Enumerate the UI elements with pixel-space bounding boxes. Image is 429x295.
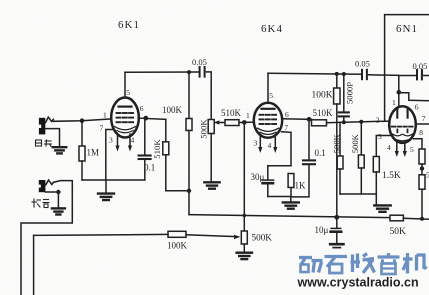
wire B- rail xyxy=(189,215,390,218)
node rail crossing xyxy=(243,214,247,218)
tube V3 plate strokes xyxy=(397,109,407,118)
node right chain xyxy=(420,166,424,170)
filament arrow V2 b xyxy=(274,137,276,148)
char kuang xyxy=(299,256,312,259)
jack J1 body xyxy=(37,118,45,135)
node rail right xyxy=(420,217,424,221)
filament arrow V1 a xyxy=(117,134,119,146)
tube V1 grid dashes xyxy=(117,113,134,122)
wire plate riser V3 xyxy=(398,76,400,107)
label jack1 xyxy=(36,140,52,147)
resistor 510K to V2 grid xyxy=(225,120,239,126)
pin 7 label V2 xyxy=(284,123,288,132)
wire cathode rail xyxy=(82,179,145,181)
capacitor 0.05 #3 xyxy=(399,75,416,77)
pin 2 label V3 xyxy=(376,115,380,124)
node pin6 junction xyxy=(143,116,148,121)
resistor right edge b xyxy=(421,169,423,175)
resistor 1.5K xyxy=(373,157,379,173)
ground cathode V2 xyxy=(283,202,299,208)
capacitor 10u electrolytic xyxy=(336,217,338,227)
wire cap3 to edge xyxy=(424,75,429,77)
node pin6 V2 junction xyxy=(307,117,312,122)
wire V2 plate riser xyxy=(267,73,269,103)
jack J2 plug xyxy=(46,180,54,185)
wire outer L xyxy=(21,186,72,295)
wire plate rail V1 xyxy=(125,71,198,73)
capacitor 0.1 #2 xyxy=(308,119,310,159)
tube V1 plate bar xyxy=(119,105,132,107)
tube V3 cathode arcs xyxy=(393,134,403,136)
node 5000P junction rail xyxy=(342,72,346,76)
pin 5 label V1 xyxy=(126,88,130,97)
wire tone pot to ground xyxy=(210,134,212,182)
jack J2 body xyxy=(37,180,45,192)
wire pin7 V3 to edge xyxy=(416,123,429,125)
node 500K grid xyxy=(359,120,363,124)
capacitor 0.05 #2 xyxy=(362,70,367,79)
wire junction to B rail xyxy=(188,191,190,215)
ground 10u xyxy=(330,243,343,246)
wire ground stem V2 xyxy=(290,197,292,202)
wire plate rail V2 xyxy=(268,73,361,74)
tube V1 label 6K1 xyxy=(118,19,140,31)
wire pin7 V2 cathode xyxy=(282,132,292,166)
capacitor 30u electrolytic xyxy=(267,166,269,179)
label jack2 xyxy=(32,199,49,208)
wire grid leak vertical xyxy=(243,122,245,231)
wire pin6 V1 xyxy=(139,118,165,119)
tube V3 6N1 envelope xyxy=(389,106,416,143)
char shou xyxy=(351,255,354,273)
node 5000P grid xyxy=(342,120,346,124)
wire grid V3 run xyxy=(327,121,390,123)
char yin xyxy=(378,255,400,258)
resistor 100K plate load V1 xyxy=(188,72,190,118)
pin 5 label V2 xyxy=(269,91,273,100)
paper texture xyxy=(0,0,1,1)
wire jack2 sleeve xyxy=(45,192,58,208)
tube V2 plate bar xyxy=(262,108,275,110)
wire bottom input run xyxy=(34,234,168,235)
wire pin6 V2 xyxy=(282,118,311,121)
capacitor 0.05 #1 xyxy=(200,67,205,77)
resistor 100K decoupling xyxy=(336,74,338,88)
pin 8 label V3 xyxy=(419,128,423,137)
node grid junction V1 xyxy=(80,118,85,123)
resistor 50K rail xyxy=(390,215,403,221)
pin 5 label V3 xyxy=(410,145,414,154)
pin 3 label V2 xyxy=(254,139,258,148)
filament arrow V2 a xyxy=(259,137,261,148)
potentiometer 500K tone xyxy=(208,120,214,134)
node plate V3 xyxy=(397,90,402,95)
resistor 100K bottom xyxy=(168,231,186,237)
resistor 510K V1 plate to follower xyxy=(165,119,167,142)
pin 7 label V1 xyxy=(100,124,104,133)
pin 3 label V3 xyxy=(378,132,382,141)
tube V2 cathode arcs xyxy=(258,128,279,131)
pin 4 label V3 xyxy=(387,143,391,152)
pin 4 label V2 xyxy=(268,141,272,150)
pin 6 label V3 xyxy=(415,102,419,111)
potentiometer 500K volume xyxy=(241,231,247,244)
pin 7 label V3 xyxy=(422,114,426,123)
tube V2 label 6K4 xyxy=(261,23,283,35)
wire pin8 V3 lead xyxy=(414,139,423,149)
pin 1 label V2 xyxy=(246,111,250,120)
node plate/100K junction xyxy=(187,70,191,74)
node 10u rail xyxy=(334,215,339,220)
ground volume pot xyxy=(237,253,252,259)
wire V1 plate riser xyxy=(124,72,126,98)
ground V3 cathode xyxy=(374,205,390,211)
node 510K/100K junction xyxy=(187,189,191,193)
wire pin7 cathode xyxy=(106,130,114,181)
wire cap to tone pot xyxy=(206,72,211,120)
wire 510K to pin1 V2 xyxy=(239,121,254,123)
wire inner L xyxy=(33,235,35,294)
jack J1 plug xyxy=(46,117,54,122)
pin 6 label V2 xyxy=(285,110,289,119)
wire ground stem V1 xyxy=(105,180,107,193)
watermark crystalradio xyxy=(299,253,427,274)
char shi xyxy=(325,255,348,258)
tube V1 cathode arcs xyxy=(115,127,136,130)
wire cathode box top xyxy=(268,165,291,167)
wire wiper arrow volume xyxy=(186,235,236,237)
resistor 510K to V3 grid xyxy=(312,120,327,126)
tube V2 6K4 envelope xyxy=(254,103,282,138)
box 6N1 stage xyxy=(385,15,429,122)
wire rail right xyxy=(403,218,429,219)
char ji xyxy=(406,253,409,274)
wire plate tap to edge xyxy=(399,93,429,101)
pin 6 label V1 xyxy=(140,104,144,113)
node 100K junction rail xyxy=(335,72,339,76)
tube V1 6K1 envelope xyxy=(111,98,139,138)
wire wiper with arrow xyxy=(217,122,226,124)
watermark url xyxy=(297,276,419,290)
wire after cap2 xyxy=(369,74,399,77)
resistor 1K cathode xyxy=(288,174,294,188)
ground tone pot xyxy=(204,182,219,188)
filament arrow V3 b xyxy=(404,143,406,152)
tube V3 grid dashes xyxy=(392,127,413,133)
capacitor 5000P xyxy=(343,74,345,112)
pin 1 label V3 xyxy=(392,98,396,107)
filament arrow V1 b xyxy=(129,134,131,146)
node grid V2 xyxy=(242,120,247,125)
ground jack2 xyxy=(52,208,65,214)
resistor 500K grid a xyxy=(339,122,341,156)
wire jack2 tip xyxy=(53,181,72,186)
filament arrow V3 a xyxy=(396,143,398,152)
resistor 500K grid b xyxy=(360,122,362,155)
wire cathode box bottom xyxy=(268,196,291,198)
wire pin3 V3 cathode xyxy=(376,136,391,157)
wire jack1 to grid xyxy=(53,119,111,121)
wire jack1 sleeve xyxy=(45,129,59,147)
pin 3 label V1 xyxy=(109,135,113,144)
capacitor 0.1 #1 xyxy=(144,118,146,154)
pin 4 label V1 xyxy=(131,135,135,144)
ground tube V1 xyxy=(98,194,114,200)
resistor right edge a xyxy=(419,149,425,164)
tube V2 grid dashes xyxy=(260,115,277,124)
resistor 1M grid leak xyxy=(81,121,83,146)
ground jack1 xyxy=(53,147,66,153)
wire 500K bottoms to cathode ground xyxy=(340,193,376,195)
node jack2 xyxy=(56,190,60,194)
pin 1 label V1 xyxy=(103,111,107,120)
